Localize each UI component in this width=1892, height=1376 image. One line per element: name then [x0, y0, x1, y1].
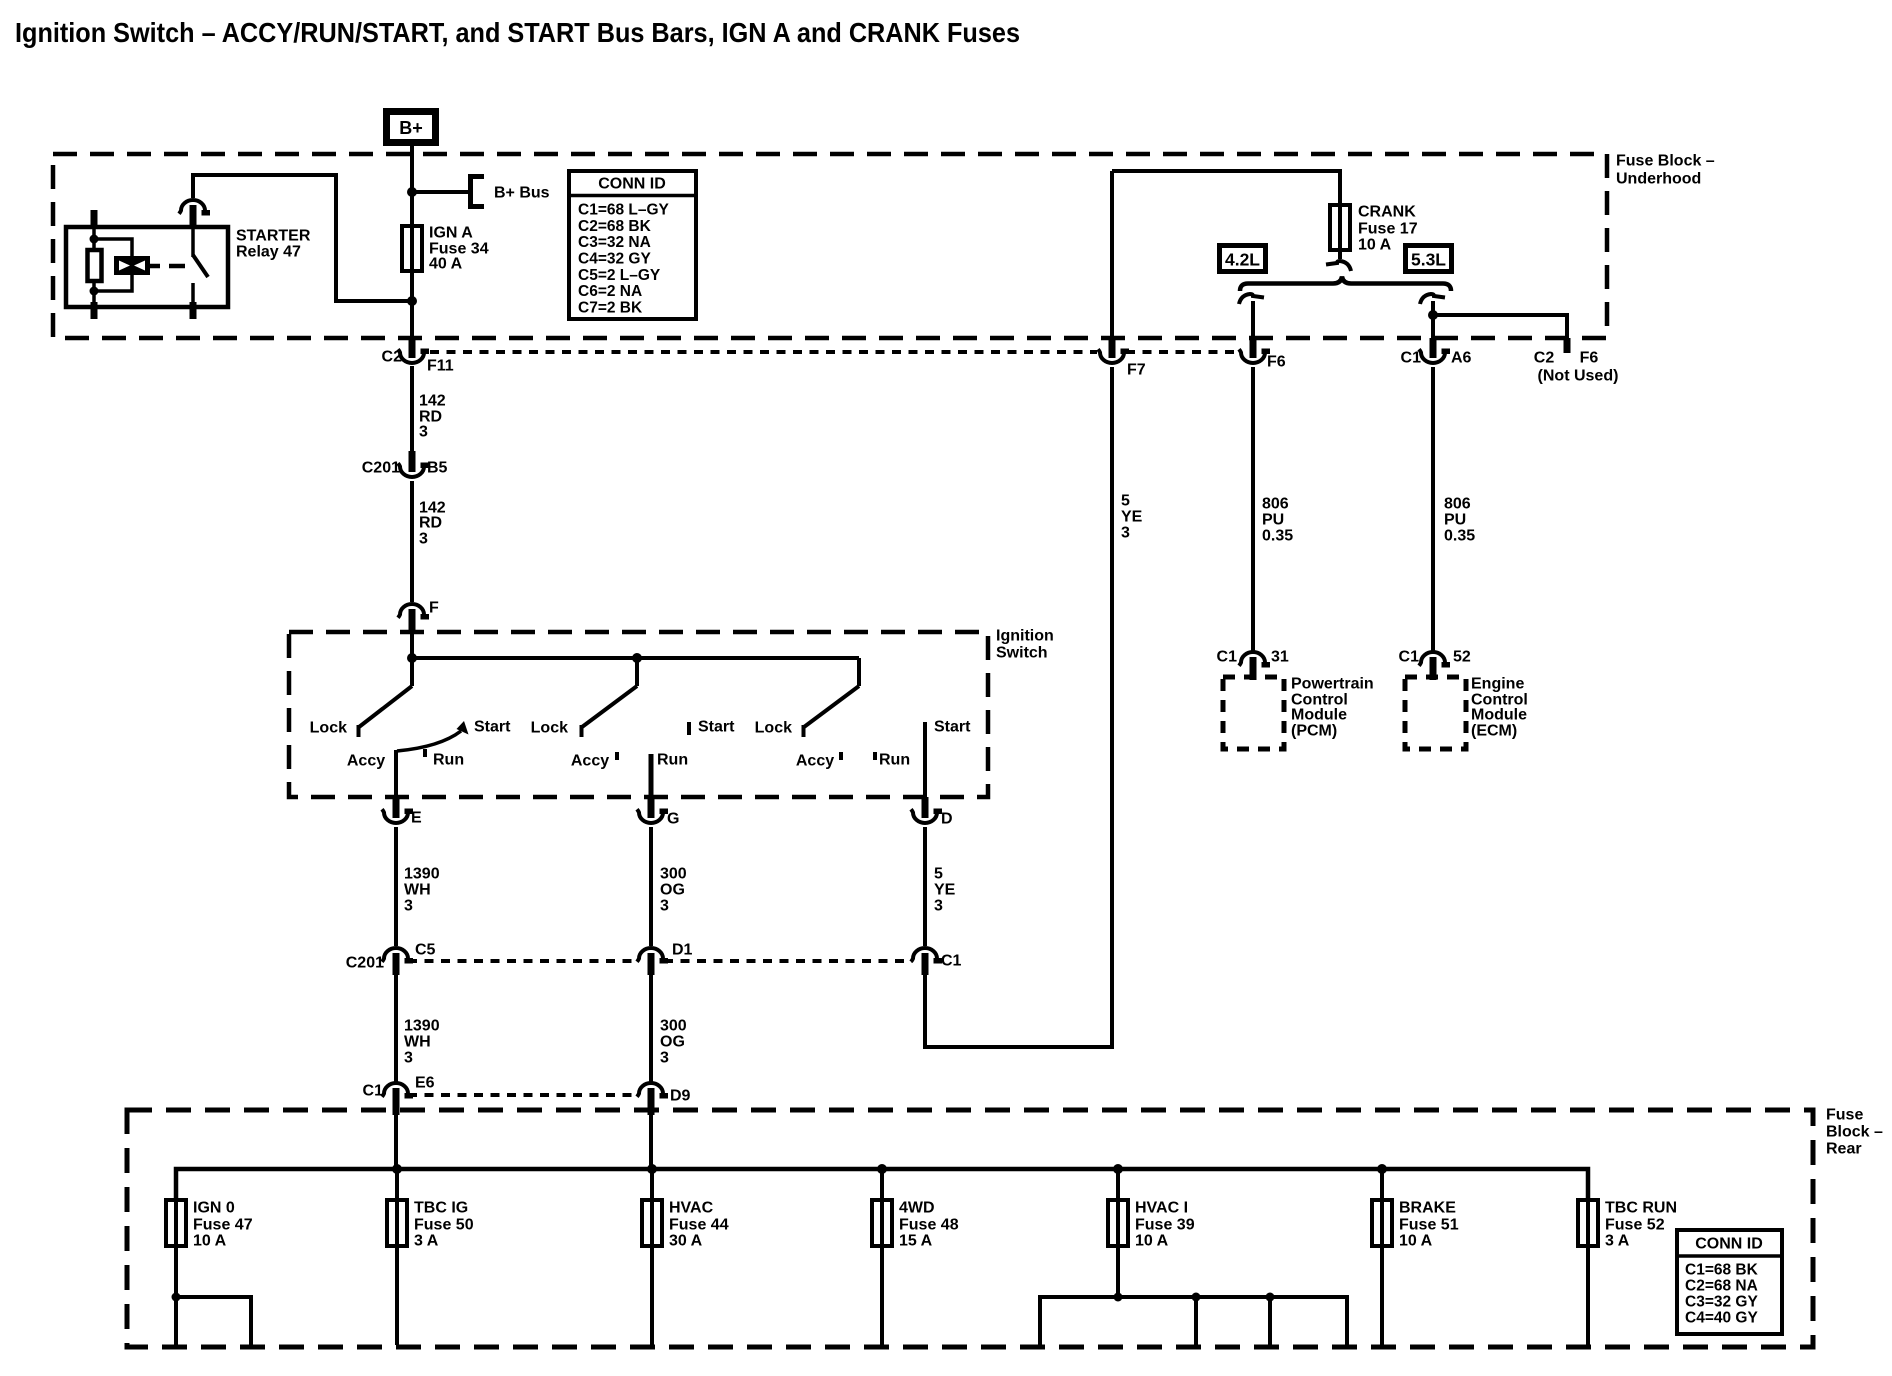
svg-text:C6=2 NA: C6=2 NA	[578, 283, 642, 300]
svg-text:(ECM): (ECM)	[1471, 723, 1517, 740]
wire rear fuse bus	[176, 1169, 1588, 1200]
fuse block rear box	[127, 1107, 1883, 1348]
svg-text:1390: 1390	[404, 866, 440, 883]
svg-text:C1: C1	[1399, 649, 1420, 666]
svg-text:Relay 47: Relay 47	[236, 244, 301, 261]
connector F7	[1098, 338, 1146, 379]
svg-text:3: 3	[934, 898, 943, 915]
powertrain control module PCM	[1223, 676, 1374, 750]
svg-text:3: 3	[419, 531, 428, 548]
wire to B+ bus	[412, 190, 470, 194]
svg-text:C5: C5	[415, 942, 436, 959]
svg-text:C3=32 GY: C3=32 GY	[1685, 1294, 1758, 1311]
svg-text:Module: Module	[1471, 707, 1527, 724]
svg-text:C2: C2	[1534, 350, 1555, 367]
svg-text:C3=32 NA: C3=32 NA	[578, 234, 651, 251]
fuse CRANK Fuse 17	[1330, 204, 1418, 260]
svg-text:C7=2 BK: C7=2 BK	[578, 300, 643, 317]
svg-text:Fuse 44: Fuse 44	[669, 1217, 729, 1234]
pin stub bottom-right	[190, 302, 197, 319]
table CONN ID underhood	[569, 171, 696, 319]
svg-text:Accy: Accy	[796, 753, 834, 770]
svg-text:TBC RUN: TBC RUN	[1605, 1200, 1677, 1217]
svg-text:Start: Start	[698, 719, 735, 736]
fuse 4WD Fuse 48	[872, 1169, 959, 1345]
connector G	[637, 797, 679, 828]
svg-text:806: 806	[1444, 496, 1471, 513]
svg-text:G: G	[667, 811, 679, 828]
relay STARTER Relay 47	[66, 200, 311, 319]
svg-text:CONN ID: CONN ID	[1695, 1236, 1763, 1253]
svg-text:A6: A6	[1451, 350, 1472, 367]
svg-text:C1: C1	[363, 1083, 384, 1100]
svg-text:Switch: Switch	[996, 645, 1048, 662]
svg-text:HVAC: HVAC	[669, 1200, 714, 1217]
svg-text:4.2L: 4.2L	[1225, 250, 1260, 270]
svg-text:(Not Used): (Not Used)	[1538, 368, 1619, 385]
fuse BRAKE Fuse 51	[1372, 1169, 1459, 1345]
wire HVAC I output manifold	[1040, 1297, 1347, 1345]
svg-text:C4=32 GY: C4=32 GY	[578, 251, 651, 268]
svg-text:(PCM): (PCM)	[1291, 723, 1337, 740]
engine control module ECM	[1405, 676, 1528, 750]
svg-text:IGN A: IGN A	[429, 225, 473, 242]
fuse IGN A Fuse 34	[402, 225, 489, 273]
fuse HVAC I Fuse 39	[1040, 1169, 1347, 1345]
svg-text:B5: B5	[427, 460, 448, 477]
wire 300 OG 3 lower	[651, 975, 687, 1083]
svg-text:30 A: 30 A	[669, 1233, 703, 1250]
svg-text:40 A: 40 A	[429, 256, 463, 273]
svg-text:C1=68 BK: C1=68 BK	[1685, 1262, 1759, 1279]
svg-text:C1: C1	[1217, 649, 1238, 666]
wire 142 RD 3 lower	[412, 481, 446, 602]
svg-text:F11: F11	[427, 358, 454, 375]
svg-text:C201: C201	[346, 955, 384, 972]
wire start bus bar to F7 feed	[925, 367, 1112, 1047]
coil winding branch	[94, 239, 132, 257]
wire A6 drop	[1431, 301, 1435, 315]
svg-text:WH: WH	[404, 882, 431, 899]
svg-text:Run: Run	[879, 752, 910, 769]
svg-text:Powertrain: Powertrain	[1291, 676, 1374, 693]
connector C1 52	[1399, 649, 1471, 681]
connector crank fuse output	[1326, 261, 1351, 271]
svg-text:Fuse 50: Fuse 50	[414, 1217, 474, 1234]
fuse TBC IG Fuse 50	[387, 1169, 474, 1345]
node A6 branch	[1428, 310, 1438, 320]
svg-text:Fuse 48: Fuse 48	[899, 1217, 959, 1234]
wire B+ to IGN A fuse and C2	[410, 146, 414, 351]
dashed connector line E6-D9	[408, 1093, 638, 1097]
svg-text:B+ Bus: B+ Bus	[494, 185, 550, 202]
svg-text:3: 3	[1121, 525, 1130, 542]
svg-text:YE: YE	[1121, 509, 1143, 526]
svg-text:BRAKE: BRAKE	[1399, 1200, 1456, 1217]
wire 1390 WH 3 upper	[396, 827, 440, 946]
fuse TBC RUN Fuse 52	[1578, 1200, 1677, 1346]
svg-text:C4=40 GY: C4=40 GY	[1685, 1310, 1758, 1327]
svg-text:Ignition Switch – ACCY/RUN/STA: Ignition Switch – ACCY/RUN/START, and ST…	[15, 17, 1020, 48]
relay switch blade	[193, 255, 208, 277]
svg-text:IGN 0: IGN 0	[193, 1200, 235, 1217]
svg-text:F: F	[429, 600, 439, 617]
svg-text:Run: Run	[657, 752, 688, 769]
svg-text:Fuse 52: Fuse 52	[1605, 1217, 1665, 1234]
wire F7 drop	[1110, 171, 1114, 338]
svg-text:5.3L: 5.3L	[1411, 250, 1446, 270]
node B+ bus junction	[407, 187, 417, 197]
resistor (coil suppression)	[88, 250, 102, 281]
svg-text:WH: WH	[404, 1034, 431, 1051]
svg-text:1390: 1390	[404, 1018, 440, 1035]
svg-text:Rear: Rear	[1826, 1141, 1862, 1158]
svg-text:Fuse 39: Fuse 39	[1135, 1217, 1195, 1234]
svg-text:3: 3	[404, 1050, 413, 1067]
connector D	[911, 797, 953, 828]
wire A6 continues	[1431, 315, 1435, 338]
svg-text:Accy: Accy	[347, 753, 385, 770]
svg-text:Fuse 17: Fuse 17	[1358, 221, 1418, 238]
connector C1 A6	[1401, 338, 1472, 367]
wires into rear fuse block	[394, 1115, 398, 1169]
battery feed B+	[387, 112, 436, 143]
svg-text:0.35: 0.35	[1262, 528, 1293, 545]
svg-text:Engine: Engine	[1471, 676, 1524, 693]
svg-text:Lock: Lock	[310, 720, 347, 737]
svg-text:5: 5	[1121, 493, 1130, 510]
wire 300 OG 3 upper	[651, 827, 687, 946]
wire 5 YE 3 (F7) label	[1121, 493, 1143, 542]
wire 1390 WH 3 lower	[396, 975, 440, 1083]
svg-text:10 A: 10 A	[193, 1233, 227, 1250]
svg-text:Fuse Block –: Fuse Block –	[1616, 153, 1715, 170]
svg-text:C1: C1	[941, 953, 962, 970]
svg-text:OG: OG	[660, 1034, 685, 1051]
svg-text:RD: RD	[419, 515, 442, 532]
ignition switch pole 2 (RUN)	[531, 658, 735, 797]
node switch common 1	[407, 653, 417, 663]
svg-text:PU: PU	[1262, 512, 1284, 529]
wire relay switch to IGN A node	[193, 175, 412, 301]
wire C2 F6 not used branch	[1433, 315, 1567, 338]
svg-text:E6: E6	[415, 1075, 435, 1092]
fuse IGN 0 Fuse 47	[166, 1200, 253, 1346]
connector E	[382, 797, 422, 827]
node bus taps	[392, 1164, 402, 1174]
coil-to-armature link	[150, 264, 185, 269]
B+ bus tap symbol	[471, 177, 550, 207]
node coil top	[90, 235, 99, 244]
svg-text:PU: PU	[1444, 512, 1466, 529]
svg-text:Lock: Lock	[531, 720, 568, 737]
start bus bar brace	[1240, 277, 1451, 292]
wire 5 YE 3 from D	[925, 827, 956, 946]
svg-text:HVAC I: HVAC I	[1135, 1200, 1188, 1217]
connector F	[398, 600, 439, 632]
svg-text:C2: C2	[382, 349, 403, 366]
svg-text:3: 3	[419, 424, 428, 441]
svg-text:Underhood: Underhood	[1616, 171, 1701, 188]
svg-text:Module: Module	[1291, 707, 1347, 724]
svg-text:C2=68 BK: C2=68 BK	[578, 218, 652, 235]
pin stub top-left	[91, 210, 98, 226]
svg-text:300: 300	[660, 1018, 687, 1035]
relay switch pin connector	[179, 200, 210, 216]
svg-text:10 A: 10 A	[1135, 1233, 1169, 1250]
svg-text:F7: F7	[1127, 362, 1146, 379]
svg-text:Start: Start	[934, 719, 971, 736]
svg-text:Fuse 47: Fuse 47	[193, 1217, 253, 1234]
svg-text:52: 52	[1453, 649, 1471, 666]
svg-text:300: 300	[660, 866, 687, 883]
svg-text:3 A: 3 A	[1605, 1233, 1630, 1250]
dotted harness line F11 to F6	[430, 350, 1240, 354]
svg-text:Ignition: Ignition	[996, 628, 1054, 645]
svg-text:Fuse: Fuse	[1826, 1107, 1863, 1124]
svg-text:Lock: Lock	[755, 720, 792, 737]
svg-text:B+: B+	[399, 118, 423, 138]
svg-text:F6: F6	[1267, 354, 1286, 371]
wire 806 PU 0.35 to ECM	[1433, 367, 1475, 652]
svg-text:142: 142	[419, 393, 446, 410]
svg-text:Run: Run	[433, 752, 464, 769]
connector F6	[1239, 338, 1286, 371]
connector C1 E6	[363, 1075, 435, 1116]
svg-text:806: 806	[1262, 496, 1289, 513]
svg-text:Accy: Accy	[571, 753, 609, 770]
svg-text:C5=2 L–GY: C5=2 L–GY	[578, 267, 661, 284]
svg-text:TBC IG: TBC IG	[414, 1200, 468, 1217]
connector brace right output	[1420, 294, 1445, 304]
wire switch common bus	[412, 656, 859, 660]
svg-text:3 A: 3 A	[414, 1233, 439, 1250]
connector C201 B5	[362, 451, 448, 477]
svg-text:31: 31	[1271, 649, 1289, 666]
fuse block underhood box	[53, 153, 1715, 339]
svg-text:CONN ID: CONN ID	[598, 176, 666, 193]
svg-text:D1: D1	[672, 942, 693, 959]
svg-text:C1=68 L–GY: C1=68 L–GY	[578, 202, 670, 219]
svg-text:D9: D9	[670, 1088, 691, 1105]
ignition switch pole 1 (ACCY)	[310, 658, 511, 797]
connector C1 31	[1217, 649, 1289, 681]
svg-text:Fuse 51: Fuse 51	[1399, 1217, 1459, 1234]
svg-text:3: 3	[660, 1050, 669, 1067]
fuse HVAC Fuse 44	[642, 1169, 729, 1345]
dashed connector line C201 row	[408, 959, 912, 963]
wire F into switch common bus	[410, 631, 414, 658]
connector C201 C5	[346, 942, 436, 976]
wire 142 RD 3 upper	[412, 366, 446, 451]
node relay branch junction	[407, 296, 417, 306]
wire F6 drop	[1251, 301, 1255, 338]
svg-text:5: 5	[934, 866, 943, 883]
svg-text:Start: Start	[474, 719, 511, 736]
connector C2 F11	[382, 338, 454, 375]
connector brace left output	[1239, 294, 1264, 304]
connector D1	[637, 942, 693, 976]
wire CRANK fuse feed	[1112, 171, 1340, 205]
svg-text:STARTER: STARTER	[236, 228, 311, 245]
pin stub bottom-left	[91, 302, 98, 319]
ignition switch pole 3 (START)	[755, 658, 971, 797]
svg-text:10 A: 10 A	[1399, 1233, 1433, 1250]
svg-text:C2=68 NA: C2=68 NA	[1685, 1278, 1758, 1295]
node coil bottom	[90, 287, 99, 296]
svg-text:C1: C1	[1401, 350, 1422, 367]
svg-text:Block –: Block –	[1826, 1124, 1883, 1141]
svg-text:F6: F6	[1580, 350, 1599, 367]
connector C1 (start wire)	[911, 948, 962, 975]
svg-text:3: 3	[660, 898, 669, 915]
svg-text:3: 3	[404, 898, 413, 915]
svg-text:OG: OG	[660, 882, 685, 899]
svg-text:10 A: 10 A	[1358, 237, 1392, 254]
node switch common 2	[632, 653, 642, 663]
5.3L tag	[1406, 246, 1452, 272]
connector D9	[637, 1083, 691, 1115]
svg-text:0.35: 0.35	[1444, 528, 1475, 545]
svg-text:YE: YE	[934, 882, 956, 899]
svg-text:D: D	[941, 811, 953, 828]
table CONN ID rear	[1677, 1230, 1782, 1334]
label C2 F6 (Not Used)	[1534, 350, 1619, 385]
svg-text:E: E	[411, 810, 422, 827]
4.2L tag	[1220, 246, 1266, 272]
svg-text:CRANK: CRANK	[1358, 204, 1416, 221]
svg-text:4WD: 4WD	[899, 1200, 935, 1217]
wire 806 PU 0.35 to PCM	[1253, 367, 1293, 652]
svg-text:15 A: 15 A	[899, 1233, 933, 1250]
svg-text:C201: C201	[362, 460, 400, 477]
ignition switch box	[289, 628, 1054, 798]
